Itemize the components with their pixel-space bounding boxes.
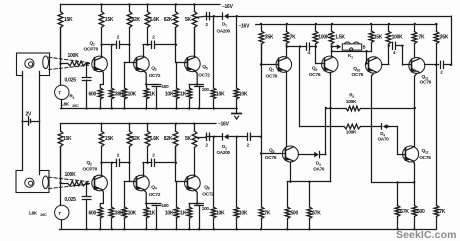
svg-text:100: 100: [202, 87, 210, 92]
transistor Q7 OC76: [266, 57, 292, 80]
svg-text:OA200: OA200: [217, 150, 231, 155]
svg-text:15K: 15K: [63, 136, 72, 142]
relay K1 coil: [342, 42, 365, 59]
wire Q7 collector to 100K drive: [300, 47, 345, 127]
svg-text:OA200: OA200: [217, 29, 231, 34]
wire Q11 emitter to Q12 collector: [415, 74, 417, 147]
svg-text:7K: 7K: [419, 35, 426, 41]
resistor 1K (Q5 emitter): [180, 85, 192, 109]
wire Q10 collector: [382, 45, 390, 65]
feedback line right border: [451, 16, 453, 65]
svg-text:20C: 20C: [40, 213, 47, 217]
resistor 600 (Q1 emitter): [89, 88, 103, 109]
capacitor 100 (Q3 emitter bypass): [152, 84, 169, 108]
notch lower box: [23, 170, 39, 172]
-16V rail (right section): [239, 23, 438, 30]
svg-text:100K: 100K: [392, 35, 404, 41]
wire cap C4 to Q6 base: [155, 147, 187, 182]
resistor 10K (Q4 base low): [122, 182, 137, 230]
wire cap to Q9 base: [310, 45, 324, 63]
svg-text:0.025: 0.025: [65, 78, 77, 84]
capacitor 2 (C1 coupling): [117, 35, 120, 49]
resistor 10K (Q6 base low): [165, 182, 179, 230]
svg-text:15K: 15K: [105, 17, 114, 23]
wire relay to Q10 base: [367, 51, 369, 64]
resistor 500 (Q8 emitter): [285, 207, 298, 229]
resistor 100K (Q9 base high): [313, 24, 330, 47]
wire Q1 collector: [100, 44, 102, 58]
capacitor 0.025 (Q1 base): [65, 63, 91, 109]
capacitor 2 (output coupling): [440, 61, 443, 74]
wire Q7 base: [261, 64, 279, 66]
svg-text:82K: 82K: [132, 17, 141, 23]
wire Q6 emitter: [189, 190, 199, 205]
transistor Q10 OC76: [352, 57, 382, 78]
svg-text:T: T: [58, 91, 61, 96]
node dots on bottom rail: [100, 123, 195, 125]
svg-text:10K: 10K: [239, 211, 248, 217]
resistor 10K (detector load 3): [211, 137, 225, 230]
node 100K-thermistor junction (lower): [59, 182, 61, 184]
svg-text:100K: 100K: [346, 99, 357, 105]
svg-text:2V: 2V: [26, 112, 33, 118]
capacitor 2 (wiper coupling top): [206, 13, 210, 27]
svg-text:10K: 10K: [216, 211, 225, 217]
resistor 15K (Q1 load): [99, 5, 114, 45]
svg-text:5.6K: 5.6K: [150, 136, 160, 142]
resistor 82K (Q4 bias): [127, 124, 140, 163]
resistor 10K (detector load 2): [234, 16, 248, 108]
node 100K-thermistor junction: [59, 63, 61, 65]
notch upper box: [23, 75, 39, 77]
lamp L2 (lower): [25, 178, 34, 187]
wire Q1 emitter: [100, 71, 103, 88]
-16V rail (bottom channel): [61, 122, 230, 128]
lens (lower): [43, 176, 49, 189]
wire Q5 emitter: [189, 71, 199, 86]
resistor 1K (Q6 emitter): [180, 204, 192, 230]
svg-text:5.6K: 5.6K: [150, 17, 160, 23]
svg-text:1K: 1K: [149, 92, 156, 98]
wire Q7 emitter to Q8 collector: [286, 72, 288, 147]
resistor 100K (Q2 base, horizontal): [61, 172, 90, 186]
resistor 500 (Q12 emitter): [412, 182, 425, 229]
resistor 10K (detector load 1): [211, 16, 225, 108]
wire Q3 emitter: [144, 71, 157, 86]
resistor 10K (Q5 base low): [165, 62, 179, 108]
svg-text:10K: 10K: [165, 92, 174, 98]
svg-text:82K: 82K: [132, 136, 141, 142]
svg-text:7K: 7K: [290, 35, 297, 41]
resistor 67K: [307, 182, 321, 230]
lamp L1 (upper): [25, 59, 34, 68]
wire cap C3 to Q4 base: [120, 162, 136, 182]
lamp housing box (lower): [16, 171, 49, 193]
diode D1 OA200: [217, 13, 231, 34]
svg-text:1.8K: 1.8K: [61, 102, 70, 107]
svg-text:35K: 35K: [440, 35, 449, 41]
svg-text:35K: 35K: [265, 35, 274, 41]
svg-text:5K: 5K: [185, 17, 192, 23]
wire 15K to thermistor (lower): [60, 147, 62, 206]
svg-text:500: 500: [417, 209, 425, 215]
wire cap to Q11 base: [396, 45, 412, 65]
capacitor 4 (Q7-Q9 coupling): [307, 43, 311, 55]
battery 2V: [26, 112, 40, 126]
svg-text:10K: 10K: [165, 211, 174, 217]
wire D1 to feedback line: [229, 15, 451, 17]
svg-text:67K: 67K: [312, 211, 321, 217]
resistor 38K (lower): [109, 163, 124, 230]
wire Q12 emitter: [413, 162, 415, 184]
wire D3 up to R2 node: [320, 107, 327, 155]
wire Q7 collector node: [286, 44, 307, 58]
svg-text:67K: 67K: [400, 209, 409, 215]
thermistor R1 1.8K: [55, 85, 79, 108]
emitter rail (Q8/Q9): [287, 181, 330, 208]
wire Q10 emitter column: [372, 73, 374, 182]
wire Q4 emitter: [144, 190, 157, 205]
thermistor 1.8K (lower): [29, 205, 70, 229]
svg-text:0.025: 0.025: [65, 197, 77, 203]
resistor 1K (Q3 emitter): [144, 85, 156, 109]
wire 15K to 100K node: [0, 0, 1, 1]
resistor 15K (Q2 load): [99, 124, 114, 163]
resistor 1.5K (relay feed): [329, 24, 345, 47]
capacitor 0.025 (Q2 base): [65, 182, 91, 230]
resistor 82K (Q5 bias): [164, 5, 178, 45]
resistor 15K (Q2 collector feed): [58, 124, 72, 183]
capacitor 2 (wiper coupling bottom): [206, 133, 210, 147]
wire lamp supply left: [22, 72, 28, 171]
node dots on top rail: [100, 3, 195, 5]
svg-text:100K: 100K: [346, 130, 357, 136]
svg-text:15K: 15K: [374, 35, 383, 41]
transistor Q12 OC76: [403, 146, 432, 162]
resistor 15K (Q10 feed): [369, 24, 383, 51]
transistor Q3 OC72: [134, 56, 161, 79]
svg-text:OC76: OC76: [352, 72, 364, 78]
wire coupling node A (lower): [102, 162, 117, 164]
ground rail (bottom): [60, 228, 437, 230]
capacitor 4 (Q10-Q11 coupling): [393, 42, 397, 55]
svg-text:T: T: [58, 211, 61, 216]
capacitor 100 (Q4 emitter bypass): [152, 203, 169, 229]
wire output to feedback: [444, 64, 453, 66]
resistor 100K (Q1 base, horizontal): [61, 53, 90, 66]
svg-text:10K: 10K: [128, 211, 137, 217]
phototransistor Q1 OCP70: [84, 40, 108, 71]
wire Q8 collector to D3: [298, 154, 314, 156]
svg-text:100K: 100K: [68, 53, 80, 59]
capacitor 2 (C2 coupling): [152, 35, 156, 49]
resistor 35K (divider): [434, 24, 449, 65]
resistor 67K (Q12): [395, 182, 409, 229]
resistor 7K (Q7 collector): [284, 24, 296, 47]
light rays to Q2: [49, 177, 89, 188]
svg-text:OA70: OA70: [313, 167, 325, 172]
light rays to Q1: [49, 57, 89, 69]
svg-text:OC76: OC76: [309, 72, 321, 78]
capacitor 2 (C4 coupling): [152, 153, 156, 167]
potentiometer 5K (Q5 load): [185, 5, 206, 57]
svg-text:5K: 5K: [185, 136, 192, 142]
svg-text:SeekIC.com: SeekIC.com: [396, 229, 457, 241]
wire Q3 collector: [143, 44, 149, 57]
emitter rail (Q10/Q12): [372, 181, 414, 183]
transistor Q11 OC76: [409, 58, 432, 86]
svg-text:OA70: OA70: [378, 137, 390, 142]
diode D2 OA200: [217, 134, 231, 155]
transistor Q5 OC72: [185, 56, 211, 78]
svg-text:B: B: [363, 45, 366, 50]
svg-text:OC72: OC72: [198, 72, 210, 78]
wire Q9 emitter column: [329, 73, 331, 182]
resistor 82K (Q3 bias): [127, 5, 140, 45]
capacitor 2 (Q8 base coupling): [247, 133, 251, 147]
svg-text:OC72: OC72: [149, 73, 161, 79]
wire Q8 base: [261, 153, 285, 155]
svg-text:100: 100: [162, 203, 170, 208]
transistor Q9 OC76: [309, 56, 338, 78]
wire cap to trigger column: [250, 136, 262, 138]
resistor R2 100K (horizontal): [326, 93, 416, 111]
svg-text:OC76: OC76: [420, 80, 432, 86]
svg-text:10K: 10K: [239, 92, 248, 98]
svg-text:7K: 7K: [439, 209, 446, 215]
svg-text:600: 600: [89, 211, 97, 217]
resistor 7K (divider low): [434, 206, 446, 230]
svg-text:OC76: OC76: [265, 155, 277, 161]
resistor 100K (Q11 base high): [386, 24, 403, 46]
svg-text:100: 100: [202, 206, 210, 211]
svg-text:10K: 10K: [216, 92, 225, 98]
resistor 600 (Q2 emitter): [89, 207, 103, 229]
transistor Q8 OC76: [265, 146, 299, 162]
emitter rail (top channel): [61, 107, 238, 109]
svg-text:OC72: OC72: [202, 192, 214, 198]
svg-text:7K: 7K: [264, 211, 271, 217]
svg-text:500: 500: [290, 211, 298, 217]
svg-text:15K: 15K: [105, 136, 114, 142]
svg-text:1.5K: 1.5K: [335, 35, 345, 41]
wire coupling node A: [102, 44, 117, 46]
svg-text:10K: 10K: [128, 92, 137, 98]
wire node B: [148, 44, 152, 46]
wire Q8 emitter: [289, 162, 291, 183]
wire lamp supply right: [39, 72, 41, 175]
ground: [232, 109, 241, 120]
svg-text:600: 600: [89, 92, 97, 98]
capacitor 2 (C3 coupling): [117, 153, 120, 167]
svg-text:OC76: OC76: [419, 155, 431, 161]
lamp housing box (upper): [17, 53, 50, 76]
capacitor 100 (Q5 emitter bypass): [195, 85, 210, 109]
resistor 82K (Q6 bias): [164, 124, 178, 163]
resistor 38K: [109, 45, 124, 109]
wire Q5 collector: [194, 28, 196, 57]
svg-text:OCP70: OCP70: [84, 47, 99, 53]
transistor Q6 OC72: [185, 175, 215, 197]
transistor Q4 OC72: [134, 175, 161, 198]
svg-text:100: 100: [162, 84, 170, 89]
svg-text:–16V: –16V: [222, 4, 234, 10]
resistor 5.6K (Q3 load): [145, 5, 160, 45]
wire D4 to Q12 base: [387, 125, 406, 154]
resistor 10K (Q3 base low): [122, 62, 137, 108]
svg-text:1.8K: 1.8K: [29, 211, 38, 216]
wire cap C2 to Q5 base: [155, 28, 187, 63]
resistor 1K (Q4 emitter): [144, 204, 156, 230]
diode D3 OA70: [313, 151, 325, 171]
wire Q2 collector: [100, 162, 102, 177]
svg-text:OC76: OC76: [266, 74, 278, 80]
svg-text:OC72: OC72: [149, 192, 161, 198]
diode D4 OA70: [378, 124, 390, 142]
wire Q9 collector: [331, 44, 333, 56]
resistor 7K (Q7 base low): [259, 207, 271, 229]
resistor 5.6K (Q4 load): [145, 124, 160, 163]
svg-text:82K: 82K: [164, 136, 173, 142]
resistor 7K (Q11 collector): [412, 24, 425, 58]
svg-text:OCP70: OCP70: [83, 166, 98, 172]
resistor 10K (detector load 4): [234, 137, 248, 230]
resistor 100K (drive, horizontal): [344, 124, 382, 136]
wire node B (lower): [148, 162, 152, 164]
resistor 35K (Q7 base high): [259, 24, 274, 65]
phototransistor Q2 OCP70: [83, 160, 108, 191]
lens (upper): [43, 56, 49, 69]
wire detector line (bottom): [206, 136, 223, 138]
capacitor 100 (Q6 emitter bypass): [195, 204, 210, 230]
svg-text:–16V: –16V: [218, 122, 230, 128]
watermark SeekIC.com: [396, 229, 457, 241]
svg-text:20C: 20C: [72, 104, 79, 108]
svg-text:15K: 15K: [64, 17, 73, 23]
wire Q2 emitter: [100, 190, 103, 207]
trigger bias column: [260, 44, 262, 207]
svg-text:1K: 1K: [149, 211, 156, 217]
wire Q4 collector: [143, 162, 149, 176]
wire Q11 collector out: [425, 64, 439, 66]
wire detector line (top): [206, 15, 223, 17]
divider column: [436, 65, 438, 206]
svg-text:82K: 82K: [164, 17, 173, 23]
svg-text:1K: 1K: [180, 92, 187, 98]
svg-text:100K: 100K: [65, 172, 77, 178]
wire relay link: [332, 50, 371, 52]
relay contact arm: [332, 44, 341, 49]
svg-text:1K: 1K: [180, 211, 187, 217]
wire cap C1 to Q3 base: [120, 44, 136, 63]
potentiometer 5K (Q6 load): [185, 124, 206, 175]
wire D2 out: [229, 136, 248, 138]
wire 15K to thermistor: [60, 28, 62, 86]
-16V rail (top channel): [61, 4, 234, 10]
resistor 15K (Q1 collector feed): [58, 5, 73, 64]
svg-text:–16V: –16V: [239, 23, 251, 29]
